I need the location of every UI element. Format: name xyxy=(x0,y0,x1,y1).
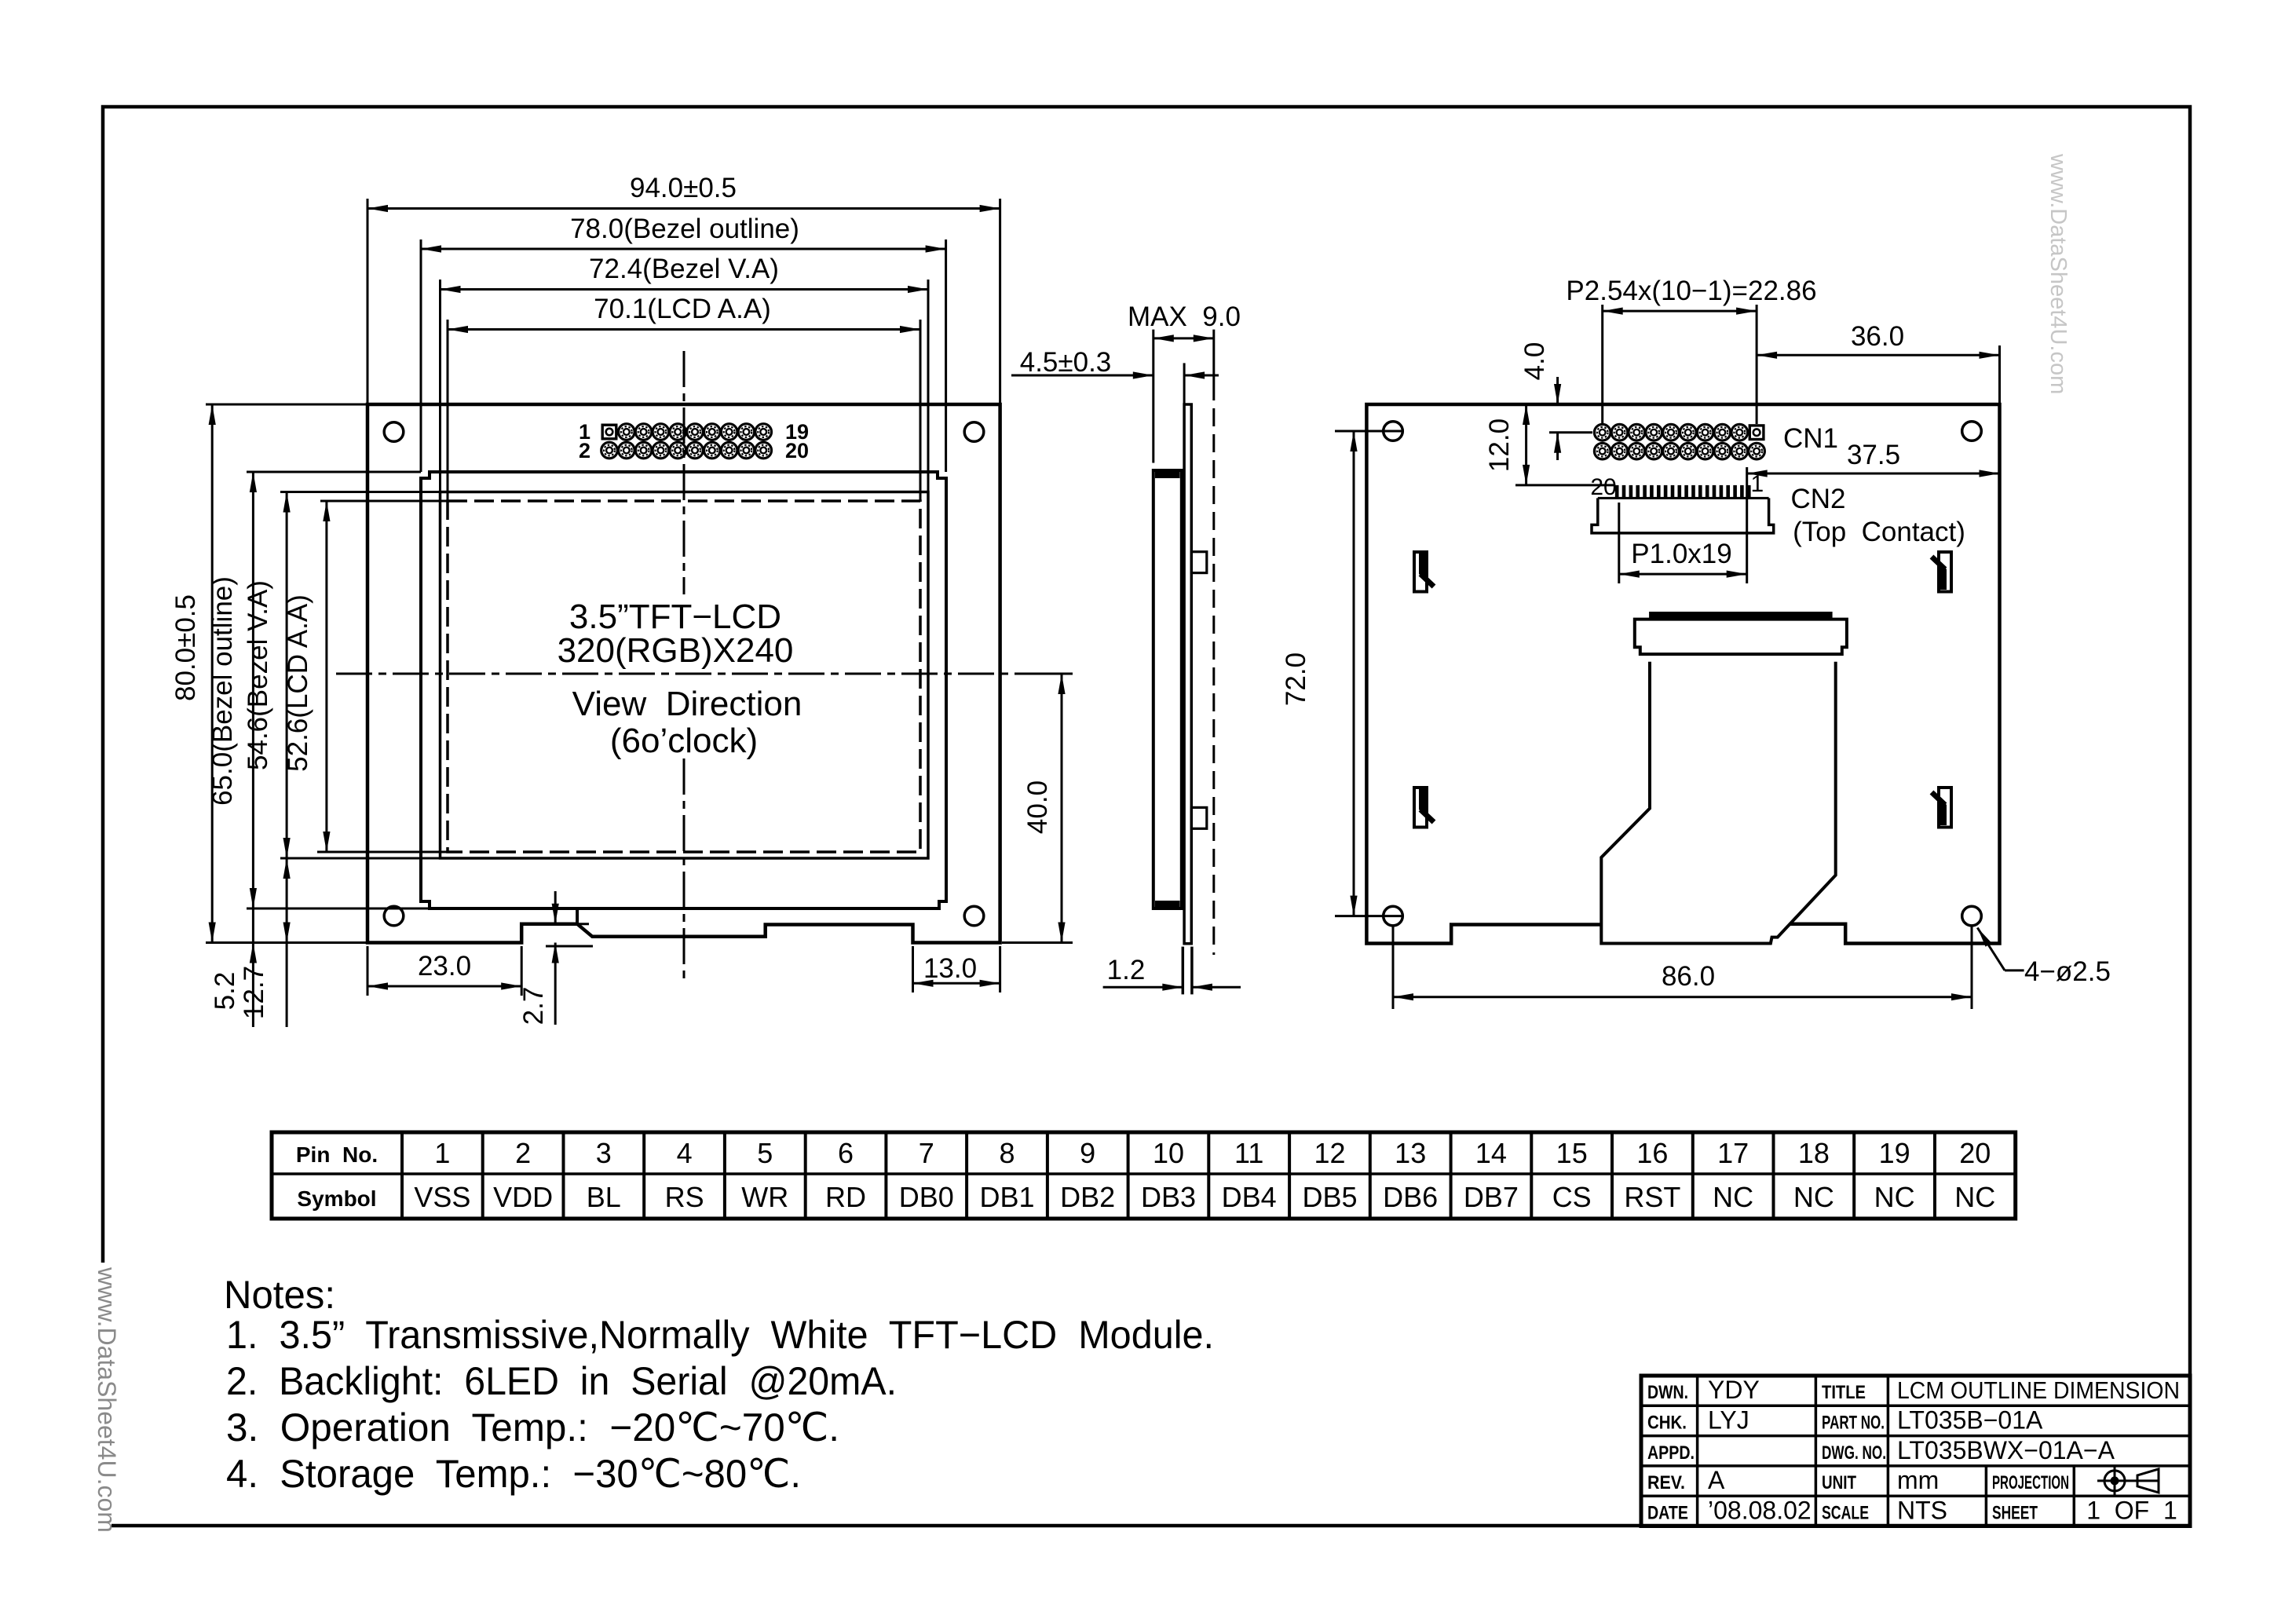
svg-text:13: 13 xyxy=(1395,1137,1426,1169)
svg-text:DB3: DB3 xyxy=(1141,1181,1196,1213)
svg-text:72.0: 72.0 xyxy=(1281,652,1311,706)
side view bezel profile xyxy=(1153,470,1182,908)
dimension 40.0 xyxy=(1002,674,1073,943)
svg-text:DB0: DB0 xyxy=(899,1181,954,1213)
rear mounting hole top-right xyxy=(1962,422,1982,441)
dimension 72.4 bezel VA xyxy=(441,254,929,293)
svg-text:DB7: DB7 xyxy=(1464,1181,1519,1213)
svg-text:DB5: DB5 xyxy=(1302,1181,1357,1213)
svg-text:VSS: VSS xyxy=(414,1181,470,1213)
svg-text:4.0: 4.0 xyxy=(1519,342,1550,381)
dimension 94.0 xyxy=(367,173,1000,212)
front mounting hole bottom-right xyxy=(964,906,984,926)
rear FPC end connector body xyxy=(1635,620,1847,655)
svg-text:70.1(LCD A.A): 70.1(LCD A.A) xyxy=(594,294,771,324)
front horizontal centerline xyxy=(336,673,1030,675)
svg-text:1: 1 xyxy=(434,1137,450,1169)
svg-text:1.2: 1.2 xyxy=(1107,955,1146,985)
rear view plate outline xyxy=(1366,404,1999,944)
pin assignment table xyxy=(272,1132,2016,1219)
dimension 78.0 bezel outline xyxy=(421,214,946,253)
svg-text:NC: NC xyxy=(1874,1181,1915,1213)
side view EMI tab upper xyxy=(1191,552,1207,573)
dimension P1.0x19 xyxy=(1619,539,1747,578)
svg-text:NTS: NTS xyxy=(1897,1496,1947,1524)
svg-text:Pin No.: Pin No. xyxy=(296,1142,378,1167)
dimension 23.0 xyxy=(367,951,521,990)
svg-text:LCM OUTLINE DIMENSION: LCM OUTLINE DIMENSION xyxy=(1897,1376,2180,1404)
front view plate outline xyxy=(367,404,1000,943)
rear mounting hole bottom-right xyxy=(1962,906,1982,926)
svg-text:4. Storage Temp.: −30℃~80℃.: 4. Storage Temp.: −30℃~80℃. xyxy=(226,1452,801,1496)
svg-text:NC: NC xyxy=(1954,1181,1995,1213)
dimension 86.0 xyxy=(1393,927,1972,1009)
svg-text:12: 12 xyxy=(1314,1137,1345,1169)
svg-text:37.5: 37.5 xyxy=(1847,440,1900,470)
front LCD active area dashed xyxy=(448,501,920,852)
dimension P2.54x(10-1)=22.86 xyxy=(1566,276,1816,315)
front view labels 3.5 TFT-LCD xyxy=(558,598,803,760)
dimension 4.0 xyxy=(1519,342,1592,460)
dimension 70.1 LCD AA xyxy=(448,294,920,333)
svg-text:mm: mm xyxy=(1897,1466,1939,1494)
front left extension lines xyxy=(206,404,448,943)
front mounting hole top-left xyxy=(384,422,404,442)
svg-text:CN2: CN2 xyxy=(1791,484,1846,514)
title block labels xyxy=(1647,1382,2069,1523)
dimension 12.0 xyxy=(1484,404,1614,485)
svg-text:PROJECTION: PROJECTION xyxy=(1992,1472,2069,1493)
svg-text:’08.08.02: ’08.08.02 xyxy=(1708,1496,1812,1524)
svg-text:16: 16 xyxy=(1636,1137,1668,1169)
svg-text:23.0: 23.0 xyxy=(418,951,471,981)
rear EMI clip lower-left xyxy=(1414,788,1434,828)
dimension 80.0 xyxy=(170,404,216,943)
svg-text:RST: RST xyxy=(1624,1181,1680,1213)
svg-text:RD: RD xyxy=(825,1181,866,1213)
svg-text:86.0: 86.0 xyxy=(1662,961,1715,992)
svg-text:5: 5 xyxy=(757,1137,773,1169)
dimension 2.7 xyxy=(518,891,593,1025)
svg-text:5.2: 5.2 xyxy=(210,972,240,1011)
rear EMI clip lower-right xyxy=(1932,788,1951,828)
rear EMI clip upper-left xyxy=(1414,552,1434,592)
svg-text:VDD: VDD xyxy=(493,1181,553,1213)
svg-text:WR: WR xyxy=(741,1181,788,1213)
svg-text:52.6(LCD A.A): 52.6(LCD A.A) xyxy=(283,594,313,772)
svg-text:8: 8 xyxy=(999,1137,1015,1169)
rear EMI clip upper-right xyxy=(1932,552,1951,592)
svg-text:7: 7 xyxy=(919,1137,934,1169)
rear CN2 contact comb xyxy=(1598,485,1769,499)
svg-text:36.0: 36.0 xyxy=(1851,321,1904,352)
side view pcb front extension line xyxy=(1183,363,1186,404)
svg-text:Symbol: Symbol xyxy=(297,1186,376,1211)
pin table header labels xyxy=(296,1142,378,1211)
svg-text:DWN.: DWN. xyxy=(1647,1382,1688,1403)
watermark bottom left xyxy=(85,1263,112,1536)
svg-text:Notes:: Notes: xyxy=(224,1273,335,1317)
front bezel viewing area xyxy=(441,492,929,859)
side view bottom tail xyxy=(1183,947,1192,995)
svg-text:www.DataSheet4U.com: www.DataSheet4U.com xyxy=(2046,153,2071,394)
side view max envelope dashed line xyxy=(1212,330,1215,955)
svg-text:3.5”TFT−LCD: 3.5”TFT−LCD xyxy=(569,598,781,636)
svg-text:17: 17 xyxy=(1717,1137,1749,1169)
dimension 5.2 xyxy=(210,908,257,1027)
svg-text:TITLE: TITLE xyxy=(1822,1382,1866,1403)
svg-text:2: 2 xyxy=(579,439,590,462)
svg-text:DB2: DB2 xyxy=(1060,1181,1115,1213)
svg-text:1. 3.5” Transmissive,Normall: 1. 3.5” Transmissive,Normally White TFT−… xyxy=(226,1313,1214,1357)
svg-text:CS: CS xyxy=(1552,1181,1592,1213)
pin table numbers row xyxy=(434,1137,1991,1169)
dimension 1.2 xyxy=(1103,955,1241,991)
drawing border frame xyxy=(103,107,2190,1526)
rear mounting hole top-left xyxy=(1384,422,1403,441)
svg-text:20: 20 xyxy=(1959,1137,1991,1169)
rear CN2 pin labels xyxy=(1590,471,1764,500)
svg-text:4−ø2.5: 4−ø2.5 xyxy=(2024,956,2111,987)
svg-text:LT035B−01A: LT035B−01A xyxy=(1897,1406,2043,1434)
title block grid xyxy=(1641,1376,2190,1526)
svg-text:19: 19 xyxy=(1879,1137,1910,1169)
dimension 13.0 extension lines xyxy=(913,946,1000,992)
rear FPC body xyxy=(1601,662,1835,944)
svg-text:2.7: 2.7 xyxy=(518,987,549,1025)
svg-text:DB4: DB4 xyxy=(1222,1181,1277,1213)
svg-text:320(RGB)X240: 320(RGB)X240 xyxy=(558,631,794,670)
svg-text:15: 15 xyxy=(1556,1137,1588,1169)
rear CN2 connector body xyxy=(1592,498,1774,533)
svg-text:UNIT: UNIT xyxy=(1822,1472,1856,1493)
svg-text:2: 2 xyxy=(515,1137,531,1169)
svg-text:13.0: 13.0 xyxy=(923,953,977,984)
rear CN1 pin pads xyxy=(1594,424,1764,459)
svg-text:20: 20 xyxy=(785,439,809,462)
svg-text:DB1: DB1 xyxy=(979,1181,1034,1213)
svg-text:(6o’clock): (6o’clock) xyxy=(610,722,758,760)
svg-text:SHEET: SHEET xyxy=(1992,1502,2038,1523)
svg-text:18: 18 xyxy=(1798,1137,1830,1169)
svg-text:3: 3 xyxy=(596,1137,612,1169)
svg-text:14: 14 xyxy=(1475,1137,1507,1169)
dimension 36.0 xyxy=(1757,321,1999,404)
svg-text:SCALE: SCALE xyxy=(1822,1502,1869,1523)
pin table symbols row xyxy=(414,1181,1995,1213)
svg-text:4: 4 xyxy=(677,1137,693,1169)
svg-text:94.0±0.5: 94.0±0.5 xyxy=(630,173,737,203)
svg-text:3. Operation Temp.: −20℃~70: 3. Operation Temp.: −20℃~70℃. xyxy=(226,1406,839,1449)
svg-text:11: 11 xyxy=(1234,1137,1263,1169)
svg-text:View Direction: View Direction xyxy=(572,685,803,723)
dimension 54.6 bezel VA xyxy=(243,492,291,859)
dimension P2.54 extension lines xyxy=(1603,305,1757,424)
svg-text:54.6(Bezel V.A): 54.6(Bezel V.A) xyxy=(243,580,273,770)
front bezel outline xyxy=(421,472,946,908)
svg-text:APPD.: APPD. xyxy=(1647,1442,1695,1464)
dimension 52.6 LCD AA xyxy=(283,501,331,852)
svg-text:LYJ: LYJ xyxy=(1708,1406,1749,1434)
svg-text:YDY: YDY xyxy=(1708,1376,1760,1404)
svg-text:6: 6 xyxy=(838,1137,854,1169)
dimension 72.4 extension lines xyxy=(441,280,929,492)
svg-text:78.0(Bezel outline): 78.0(Bezel outline) xyxy=(570,214,799,244)
front mounting hole top-right xyxy=(964,422,984,442)
svg-text:NC: NC xyxy=(1713,1181,1753,1213)
svg-text:12.0: 12.0 xyxy=(1484,419,1515,472)
front pin header CN1 pads xyxy=(601,424,772,459)
svg-text:4.5±0.3: 4.5±0.3 xyxy=(1020,347,1112,378)
svg-text:2. Backlight: 6LED in Seri: 2. Backlight: 6LED in Serial @20mA. xyxy=(226,1359,897,1403)
svg-text:www.DataSheet4U.com: www.DataSheet4U.com xyxy=(93,1267,121,1533)
svg-text:RS: RS xyxy=(665,1181,704,1213)
dimension 78.0 extension lines xyxy=(421,239,946,472)
svg-text:40.0: 40.0 xyxy=(1022,780,1053,834)
side view PCB xyxy=(1184,404,1191,944)
front pin header labels xyxy=(579,420,809,462)
rear FPC end stiffener bar xyxy=(1649,612,1833,619)
svg-text:MAX 9.0: MAX 9.0 xyxy=(1128,302,1241,332)
svg-text:PART NO.: PART NO. xyxy=(1822,1412,1885,1433)
front bottom tab side line xyxy=(576,908,579,924)
svg-text:DWG. NO.: DWG. NO. xyxy=(1822,1442,1886,1464)
svg-text:80.0±0.5: 80.0±0.5 xyxy=(170,594,201,701)
dimension 72.0 xyxy=(1281,431,1404,916)
svg-text:12.7: 12.7 xyxy=(239,966,269,1019)
side view front face extension line xyxy=(1152,330,1154,463)
svg-text:P2.54x(10−1)=22.86: P2.54x(10−1)=22.86 xyxy=(1566,276,1816,306)
svg-text:CHK.: CHK. xyxy=(1647,1412,1687,1433)
svg-text:CN1: CN1 xyxy=(1783,423,1838,454)
dimension 4.5 xyxy=(1011,347,1219,379)
svg-text:9: 9 xyxy=(1080,1137,1095,1169)
dimension 23.0 extension lines xyxy=(367,946,521,996)
svg-text:20: 20 xyxy=(1590,474,1616,500)
leader 4-diam2.5 xyxy=(1977,928,2111,988)
dimension P1.0x19 extension lines xyxy=(1619,503,1747,583)
svg-text:DB6: DB6 xyxy=(1383,1181,1438,1213)
svg-text:P1.0x19: P1.0x19 xyxy=(1631,539,1731,569)
dimension 13.0 xyxy=(913,953,1000,987)
rear mounting hole bottom-left xyxy=(1384,906,1403,926)
svg-text:LT035BWX−01A−A: LT035BWX−01A−A xyxy=(1897,1436,2115,1464)
dimension 37.5 xyxy=(1747,440,2000,503)
projection symbol xyxy=(2097,1467,2159,1495)
front vertical centerline xyxy=(683,351,686,984)
svg-text:NC: NC xyxy=(1793,1181,1834,1213)
front mounting hole bottom-left xyxy=(384,906,404,926)
dimension 65.0 bezel outline xyxy=(207,472,257,908)
svg-text:10: 10 xyxy=(1153,1137,1184,1169)
title block values xyxy=(1708,1376,2180,1524)
svg-text:REV.: REV. xyxy=(1647,1472,1685,1493)
dimension 94.0 extension lines xyxy=(367,199,1000,404)
side view EMI tab lower xyxy=(1191,807,1207,828)
svg-text:1 OF 1: 1 OF 1 xyxy=(2086,1496,2177,1524)
svg-text:DATE: DATE xyxy=(1647,1502,1688,1523)
svg-text:72.4(Bezel V.A): 72.4(Bezel V.A) xyxy=(589,254,779,284)
svg-text:65.0(Bezel outline): 65.0(Bezel outline) xyxy=(207,576,238,806)
svg-text:(Top Contact): (Top Contact) xyxy=(1793,517,1965,547)
svg-text:A: A xyxy=(1708,1466,1725,1494)
dimension 12.7 xyxy=(239,858,291,1027)
dimension MAX 9.0 xyxy=(1128,302,1241,342)
svg-text:BL: BL xyxy=(587,1181,621,1213)
dimension 70.1 extension lines xyxy=(448,320,920,501)
